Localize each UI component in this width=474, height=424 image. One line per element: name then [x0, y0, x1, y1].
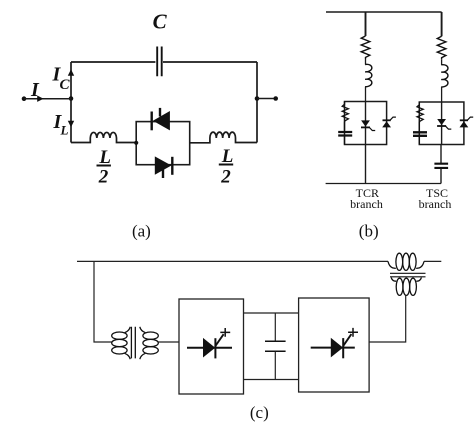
arrow for I (right) [37, 96, 43, 102]
thyristor valve box TSC [419, 102, 464, 145]
wire: top bus of (c) [77, 260, 441, 262]
snubber resistor TSC [417, 102, 423, 131]
label I_C [52, 64, 71, 94]
node: output junction [255, 96, 260, 101]
arrow for I_L (down) [68, 121, 74, 128]
wire [441, 87, 443, 102]
inductor L/2 right [190, 132, 257, 143]
label TSC branch [419, 186, 452, 211]
svg-text:C: C [60, 77, 71, 93]
converter box U2 [299, 298, 370, 392]
wire [441, 59, 443, 65]
value label L/2 right [220, 146, 233, 188]
wire: snubber to box bottom [418, 137, 420, 145]
inductor L/2 left [71, 132, 136, 142]
snubber resistor TCR [342, 102, 348, 131]
series capacitor TSC [434, 164, 448, 168]
input terminal [22, 96, 27, 101]
wire: T1 to rectifier box [158, 341, 179, 343]
wire: bottom bus of (b) [326, 183, 441, 185]
wire: capacitor to bottom bus [440, 169, 442, 184]
svg-text:branch: branch [419, 197, 452, 211]
svg-text:branch: branch [350, 197, 383, 211]
thyristor U2 [311, 334, 355, 358]
resistor TCR branch [361, 36, 370, 59]
transformer T1 core [131, 327, 135, 359]
wire: dc rail bottom [244, 379, 299, 381]
thyristor TCR right (points up) [382, 117, 396, 127]
resistor TSC branch [437, 36, 446, 59]
svg-text:2: 2 [98, 166, 109, 187]
label TCR branch [350, 186, 383, 211]
transformer T2 secondary winding [391, 278, 421, 296]
svg-text:I: I [30, 79, 40, 101]
svg-text:(b): (b) [359, 222, 379, 241]
thyristor valve box TCR [345, 102, 387, 145]
plus label U2 [348, 328, 358, 337]
thyristor top of (a) (points left) [152, 108, 170, 130]
thyristor U1 [187, 334, 232, 358]
wire: top horizontal of (a) [71, 61, 257, 63]
dc link capacitor [265, 313, 286, 380]
svg-text:L: L [60, 123, 69, 138]
wire: TSC main vertical through box [441, 102, 443, 145]
output terminal [273, 96, 278, 101]
snubber capacitor TSC [413, 132, 427, 136]
converter box U1 [179, 299, 244, 394]
inductor TSC branch [441, 65, 448, 87]
wire: right vertical of (a) [256, 62, 258, 143]
wire [365, 59, 367, 65]
wire: input lead [24, 98, 71, 100]
thyristor TSC middle (points down) [437, 119, 451, 129]
wire: U2 output to T2 [369, 296, 406, 342]
wire: TCR branch top stub [365, 12, 367, 36]
snubber capacitor TCR [338, 132, 352, 136]
transformer T1 secondary winding [140, 327, 159, 359]
inductor TCR branch [365, 64, 372, 86]
transformer T2 line-side winding [388, 253, 424, 270]
thyristor TSC right (points up) [460, 117, 474, 127]
arrow for I_C (up) [68, 69, 74, 76]
wire: dc rail top [244, 312, 299, 314]
svg-text:2: 2 [220, 166, 231, 187]
wire: snubber to box bottom [344, 137, 346, 145]
thyristor bottom of (a) (points right) [155, 156, 173, 178]
label I_L [53, 111, 69, 137]
thyristor box of (a) [136, 122, 190, 165]
svg-text:(a): (a) [132, 222, 151, 241]
wire: TCR main vertical through box to bottom bus [365, 102, 367, 184]
node: box left junction [134, 141, 138, 145]
wire: left vertical of (a) [70, 62, 72, 143]
wire: TSC branch top stub [441, 12, 443, 36]
svg-text:C: C [153, 10, 168, 34]
wire: TSC box to series capacitor [440, 145, 442, 164]
svg-text:(c): (c) [250, 403, 269, 422]
wire: left vertical drop of (c) [94, 261, 112, 342]
capacitor C (plates) [157, 47, 162, 77]
wire: output lead [257, 98, 276, 100]
wire: top bus of (b) [326, 11, 442, 13]
transformer T2 core [390, 273, 426, 277]
value label L/2 left [98, 147, 111, 188]
thyristor TCR middle (points down) [361, 120, 375, 130]
plus label U1 [220, 328, 230, 337]
transformer T1 primary winding [112, 327, 130, 359]
node: input junction [69, 96, 74, 101]
wire [365, 87, 367, 102]
